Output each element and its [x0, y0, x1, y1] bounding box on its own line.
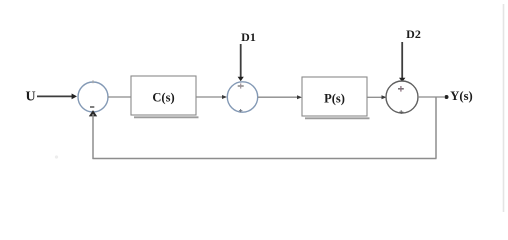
wire D2 input arrow: [399, 42, 405, 82]
feedback arrowhead into S1: [89, 110, 97, 116]
plus sign S2 top input: [238, 83, 244, 88]
plus sign S3 bottom: [399, 110, 403, 114]
svg-text:D1: D1: [241, 30, 256, 44]
block P(s): [302, 77, 370, 118]
summing junction S1: [78, 82, 108, 112]
wire feedback branch vertical from output: [435, 97, 437, 159]
wire P(s) to S3: [367, 95, 387, 99]
plus sign S2 bottom: [239, 109, 243, 112]
wire C(s) to S2: [196, 95, 227, 99]
svg-text:P(s): P(s): [324, 92, 345, 106]
minus sign on S1 feedback input: [90, 106, 94, 108]
wire D1 input arrow: [238, 44, 244, 81]
wire S2 to P(s): [258, 95, 302, 99]
wire U input arrow: [37, 94, 77, 100]
svg-text:Y(s): Y(s): [450, 89, 472, 103]
summing junction S3: [386, 81, 418, 113]
plus sign S3 top input: [398, 86, 404, 92]
wire feedback vertical up into S1: [92, 114, 94, 159]
block C(s): [131, 76, 199, 117]
svg-text:U: U: [25, 90, 35, 105]
svg-text:D2: D2: [406, 27, 421, 41]
output node dot: [445, 95, 449, 99]
summing junction S2: [227, 82, 257, 112]
svg-text:C(s): C(s): [152, 91, 174, 105]
wire S3 to output Y(s): [418, 96, 444, 98]
faint tick at S1 top: [92, 80, 94, 83]
wire S1 to C(s): [108, 96, 131, 98]
wire feedback bottom horizontal: [93, 158, 437, 160]
